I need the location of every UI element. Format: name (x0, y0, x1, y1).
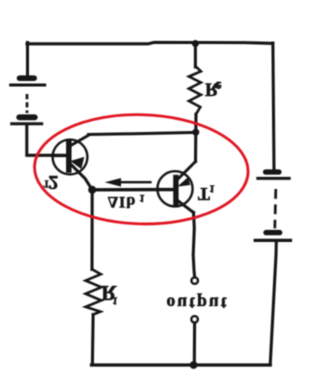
wire node A up to resistor Rc (194, 114, 197, 132)
Q1 base bar (173, 178, 178, 203)
bottom node junction dot (190, 361, 198, 369)
node A junction dot (192, 129, 199, 136)
wire battery B1 to base of Q2 (27, 125, 53, 155)
B2 cell2 long thin plate (255, 239, 290, 242)
svg-text:output: output (167, 294, 229, 314)
svg-text:ΔIb: ΔIb (108, 193, 136, 210)
output terminal O2 (open circle) (192, 316, 198, 322)
resistor Rc zigzag (189, 67, 201, 114)
wire top horizontal (27, 42, 273, 43)
Q2 base bar (66, 142, 72, 170)
wire battery B2 down to bottom wire (270, 242, 276, 365)
label T2 (left transistor designator, image is vertically flipped) (43, 171, 58, 192)
wire O2 to bottom node (193, 323, 196, 365)
node B junction dot (Q2 emitter / Q1 base / R1) (88, 186, 96, 194)
svg-text:1: 1 (139, 192, 145, 204)
svg-text:T: T (198, 184, 210, 204)
B2 cell2 short thick plate (266, 230, 280, 235)
label R1 resistor designator (flipped) (101, 281, 117, 306)
battery B1 cell 2 (12, 117, 42, 123)
output terminal O1 (open circle) (192, 278, 198, 284)
wire Q1 emitter down to output terminal (193, 213, 194, 277)
B1 cell2 long thin plate (12, 122, 42, 125)
wire Q2 collector to node A (89, 132, 197, 134)
battery B1 cell 1 (11, 78, 45, 85)
battery B1 dashed link (26, 94, 29, 113)
red ellipse annotation (33, 112, 249, 227)
battery B2 cell 2 (255, 233, 290, 241)
Q2 emitter arrow (71, 158, 83, 169)
battery B2 cell 1 (258, 172, 289, 178)
label delta-Ib1 base current (flipped) (108, 192, 145, 210)
Q1 collector arrow (179, 178, 190, 186)
bottom wire (92, 363, 271, 366)
arrow dIb1 current direction (107, 179, 151, 186)
Q2 base lead (53, 154, 66, 157)
transistor Q1 (right) (157, 162, 195, 213)
wire node B down to resistor R1 (90, 190, 93, 269)
transistor Q2 (left) (53, 135, 92, 190)
Q1 base lead (158, 188, 174, 191)
wire Q1 collector up to node A (194, 132, 197, 161)
wire R1 to bottom wire (91, 315, 95, 365)
B1 cell1 long thin plate (11, 84, 45, 87)
Q1 collector lead (178, 162, 196, 180)
svg-text:1: 1 (209, 182, 215, 194)
resistor R1 zigzag (86, 269, 102, 314)
svg-text:2: 2 (49, 171, 59, 192)
B2 cell1 short thick plate (266, 169, 280, 174)
B1 cell2 short thick plate (19, 114, 35, 120)
Q2 envelope circle (53, 140, 88, 175)
arrow head (107, 179, 121, 186)
B1 cell1 short thick plate (20, 75, 35, 81)
battery B2 dashed link (275, 189, 276, 228)
Q2 collector lead (69, 135, 89, 147)
label T1 (right transistor designator, flipped) (198, 182, 215, 204)
wire Rc to top node (194, 44, 197, 68)
svg-text:e: e (215, 79, 221, 94)
wire base of Q1 (92, 188, 158, 192)
top node junction dot (192, 40, 199, 47)
B2 cell1 long thin plate (258, 177, 289, 180)
Q1 emitter lead (178, 201, 194, 213)
Q2 emitter lead (71, 164, 93, 190)
wire left vertical to battery B1 (26, 43, 29, 77)
svg-text:1: 1 (112, 295, 117, 306)
black ink group (11, 40, 291, 369)
Q1 envelope circle (157, 171, 192, 206)
label Rc value of collector resistor (flipped) (205, 79, 221, 100)
wire right vertical to battery B2 (273, 43, 274, 169)
label output terminal text (flipped) (167, 294, 229, 314)
arrow shaft (116, 181, 151, 183)
